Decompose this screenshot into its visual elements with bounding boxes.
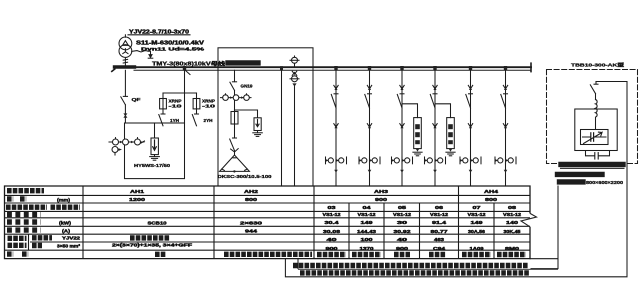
svg-text:-10: -10 [169,104,183,109]
value cell: 用途 备用2 [429,252,446,257]
grounding transformer delta [220,155,250,173]
feeder circuit 07 [460,66,481,186]
svg-text:VS1-12: VS1-12 [503,212,522,217]
svg-text:YJV22: YJV22 [62,236,81,241]
svg-text:463: 463 [434,237,445,242]
svg-text:1A09: 1A09 [470,246,485,251]
fuse FU3 [231,100,238,137]
svg-text:AH4: AH4 [484,189,498,195]
svg-text:C94: C94 [433,246,446,251]
svg-text:40: 40 [397,237,408,242]
reactor L1 [596,100,598,120]
ground arrester 2 [253,131,262,137]
svg-text:30.92: 30.92 [394,229,412,234]
label row: 高压开关柜型号 全封闭式手车柜 [6,204,80,209]
ground neutral [148,55,153,59]
breaker QF1 [121,70,128,123]
label row: 用途 [7,251,28,256]
svg-text:05: 05 [398,205,407,210]
svg-text:-10: -10 [202,104,216,109]
svg-text:VS1-12: VS1-12 [468,212,487,217]
arrester branch circuit 06 [435,104,455,156]
label cell: 型号规格 [32,235,52,240]
PT drawout stack [290,56,299,186]
wire transformer to bus [123,58,127,66]
notes [293,266,558,273]
note 1 text [293,263,528,268]
svg-text:944: 944 [245,228,258,233]
capacitor auto unit [581,120,609,145]
value cell: 用途 电缆出线2 [352,252,381,257]
svg-text:2YH: 2YH [204,118,213,123]
CT group incoming [109,138,145,155]
fuse FU1 [160,93,167,113]
svg-text:2×630: 2×630 [240,220,263,225]
svg-text:800: 800 [245,197,258,202]
value cell: 用途 变压器所用变回路 [224,252,312,257]
svg-text:TMY-3(80x8)10kV母线: TMY-3(80x8)10kV母线 [152,60,225,67]
breaker QF2 [230,138,239,155]
switch cap [590,82,598,100]
transformer T1 [119,37,132,57]
svg-text:AH2: AH2 [244,189,258,195]
value cell: 用途 进线 [155,252,166,257]
column lines [83,186,459,259]
svg-text:HY5WS-17/50: HY5WS-17/50 [134,163,171,168]
wire incoming drop [124,35,126,37]
svg-text:30K.45: 30K.45 [504,229,522,234]
feeder circuit 08 [495,66,516,186]
svg-text:08: 08 [508,205,517,210]
svg-text:900: 900 [375,197,388,202]
PT fuse branch header wire [163,70,197,123]
capacitor C1 [586,151,610,160]
svg-text:07: 07 [473,205,482,210]
label row: 计算电流 [7,227,41,232]
svg-text:144.43: 144.43 [357,229,377,234]
svg-text:(mm): (mm) [57,197,71,202]
svg-text:QF: QF [132,97,141,102]
svg-text:30A.56: 30A.56 [468,229,486,234]
ground arrester [150,155,160,161]
drawout contact [123,113,127,117]
svg-text:VS1-12: VS1-12 [323,212,342,217]
value cell: 铜芯交联电缆 [130,235,170,240]
svg-text:100: 100 [361,237,374,242]
svg-text:149: 149 [361,220,374,225]
value cell: 用途 电容补偿1 [462,252,491,257]
svg-text:06: 06 [435,205,444,210]
value cell: 用途 电容补偿2 [497,252,526,257]
svg-text:Dyn11 Ud=4.5%: Dyn11 Ud=4.5% [141,46,204,51]
metering box [125,123,185,179]
table frame [5,186,531,259]
feeder circuit 04 [359,66,380,186]
fuse FU2 [193,93,200,113]
note 2 text [300,270,530,275]
label row: 配电柜编号 [7,188,44,193]
svg-text:149: 149 [471,220,484,225]
label: 电容器成套柜 [561,162,623,167]
label row: 回路编号 [7,212,41,217]
svg-text:1200: 1200 [129,197,146,202]
feeder circuit 06 [425,66,446,186]
svg-text:(kW): (kW) [59,220,72,225]
svg-text:SCB10: SCB10 [148,220,168,225]
CT group PT [221,94,252,101]
label cap spec [558,164,625,184]
svg-text:VS1-12: VS1-12 [393,212,412,217]
busbar 10kV [114,63,531,71]
wire neutral [132,51,151,55]
node busbar-riser [183,66,190,75]
PT riser wire [280,66,283,186]
svg-text:40: 40 [327,237,338,242]
svg-text:8M0: 8M0 [505,246,520,251]
svg-text:91.4: 91.4 [432,220,447,225]
svg-text:AH3: AH3 [374,189,388,195]
arrester branch circuit 05 [402,104,422,156]
svg-text:30: 30 [397,220,408,225]
svg-text:900: 900 [326,246,339,251]
svg-text:3×50 mm²: 3×50 mm² [57,243,81,248]
incoming cable label [128,30,190,36]
label: 柜体尺寸值 [560,179,584,184]
svg-text:VS1-12: VS1-12 [358,212,377,217]
transformer T1 spec label [136,41,205,52]
svg-text:30.4: 30.4 [325,220,340,225]
capacitor cabinet dashed box [547,70,638,164]
svg-text:800×600×2200: 800×600×2200 [586,180,624,185]
wire cap entry [596,81,627,83]
switch S2 [192,114,198,126]
svg-text:(A): (A) [62,228,71,233]
svg-text:140: 140 [506,220,519,225]
busbar label 2: 沿柜顶敷设 [228,60,258,65]
value cell: 用途 电缆出线1 [317,252,346,257]
svg-text:03: 03 [328,205,337,210]
arrester FB2 branch [235,110,262,131]
table break zigzag [521,213,537,226]
label cell: 高压 [8,236,27,241]
arrester FB1 [151,123,158,155]
svg-text:04: 04 [363,205,372,210]
row lines [5,195,531,250]
value cell: 用途 备用1 [394,252,410,257]
svg-text:800: 800 [485,197,498,202]
PT cabinet box [218,48,313,186]
label: 电容柜尺寸 [558,172,603,177]
disconnect GN1 [230,70,237,94]
svg-text:1YH: 1YH [170,118,179,123]
label row: 柜宽 [7,196,26,201]
feeder circuit 03 [326,66,347,186]
svg-text:2×(3×70)+1×35, 3×4+GFF: 2×(3×70)+1×35, 3×4+GFF [112,242,192,247]
leader wire left [298,186,558,269]
feeder circuit 05 [392,66,413,186]
svg-text:DKSC-300/10.5-100: DKSC-300/10.5-100 [218,174,273,179]
svg-text:1370: 1370 [360,246,375,251]
inner box [575,109,617,151]
svg-text:TBB10-300-AK型: TBB10-300-AK型 [571,62,625,69]
label cell: 截面 [32,243,42,248]
busbar tap bar [115,65,135,68]
label cell: 电缆 [8,243,27,248]
svg-text:VS1-12: VS1-12 [430,212,449,217]
switch S1 [159,114,165,126]
svg-text:30.08: 30.08 [323,229,341,234]
svg-text:AH1: AH1 [130,189,144,195]
svg-text:80.77: 80.77 [431,229,449,234]
svg-text:900: 900 [396,246,409,251]
leader wire right [285,82,627,277]
label row: 设备容量 [7,219,41,224]
svg-text:GN19: GN19 [241,84,254,89]
